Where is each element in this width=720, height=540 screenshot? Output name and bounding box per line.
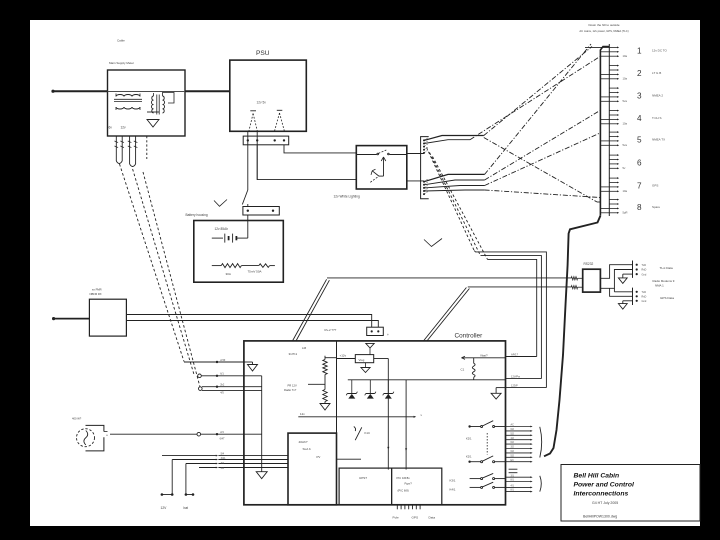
12v white lighting dimmer box <box>356 146 407 189</box>
wire radio out 2 to Rv2 <box>126 321 378 328</box>
wire fan F4 to terminal 8 <box>484 138 601 203</box>
label +12v <box>340 353 347 357</box>
label Battery housing <box>186 213 208 217</box>
svg-text:10a: 10a <box>623 122 628 126</box>
wire controller output 3/2 448.5 <box>506 446 533 450</box>
svg-text:AP/1?: AP/1? <box>511 352 519 356</box>
label terminal number 1 <box>637 46 642 55</box>
filter / main supply meter box <box>108 61 186 136</box>
battery housing box <box>194 221 283 283</box>
wire row into controller (5/4) <box>162 452 244 456</box>
svg-text:12v White Lighting: 12v White Lighting <box>334 195 360 199</box>
relay contact K4 <box>450 482 506 492</box>
wire filter to PSU <box>185 90 230 92</box>
wire controller output 4/2 439.7 <box>506 437 533 441</box>
switch K1 contact <box>354 427 370 441</box>
wire radio out 1 to Rv2 <box>126 315 371 328</box>
label bat <box>184 506 189 510</box>
terminal 3 ticks <box>600 87 619 102</box>
PIC header pins <box>397 505 420 510</box>
svg-text:Rv-2 ???: Rv-2 ??? <box>325 328 337 332</box>
svg-text:PV: PV <box>317 455 321 459</box>
svg-text:10a: 10a <box>623 77 628 81</box>
label Rv-2 <box>325 328 337 332</box>
svg-text:2/3Z: 2/3Z <box>220 359 225 362</box>
svg-text:12v 85Ah: 12v 85Ah <box>215 227 229 231</box>
label terminal number 3 <box>637 92 642 101</box>
wire rail to PIC 2 <box>405 380 407 470</box>
wire controller output 6/2 452.9 <box>506 450 533 454</box>
svg-text:Gnd: Gnd <box>642 300 647 303</box>
lower contact inside lighting box <box>370 169 379 182</box>
svg-text:40Ah?: 40Ah? <box>299 440 308 444</box>
wire controller aux output 3/1 477.2 <box>506 474 533 478</box>
PSU box U-PSU <box>230 60 306 131</box>
label terminal 3 fuse <box>623 99 628 103</box>
resistor R2 <box>323 375 327 404</box>
wire TS1 pin4 to lighting box <box>284 145 356 153</box>
label terminal number 5 <box>637 136 642 145</box>
svg-text:TLxi Data: TLxi Data <box>660 266 674 270</box>
svg-text:RxD: RxD <box>642 269 647 272</box>
svg-text:3: 3 <box>637 92 642 101</box>
svg-text:Interconnections: Interconnections <box>574 491 629 498</box>
label terminal 6 fuse <box>623 166 626 170</box>
wire 5v line with arrow <box>298 412 422 418</box>
wire fan F2 to terminal 2 <box>470 57 600 140</box>
cable bundle brace lower <box>540 476 542 492</box>
wire pair from filter (left) <box>115 136 125 164</box>
wire 12v rail horizontal <box>348 379 506 381</box>
label PSU <box>256 50 270 57</box>
wire bundle B2 <box>424 140 470 144</box>
svg-text:1: 1 <box>637 46 642 55</box>
wire dashed S2 from J1 <box>430 153 542 379</box>
svg-text:NMA 1: NMA 1 <box>655 283 664 287</box>
label terminal number 8 <box>637 203 642 212</box>
svg-text:5va: 5va <box>623 143 628 147</box>
label UPS <box>359 476 367 480</box>
wire row into controller (3/2b) <box>186 462 244 465</box>
wire wind gen to controller <box>110 432 244 436</box>
svg-text:12V/Pw: 12V/Pw <box>511 374 520 378</box>
svg-text:12v: 12v <box>121 126 127 130</box>
svg-text:123/P: 123/P <box>511 383 518 387</box>
svg-text:Pole: Pole <box>393 516 399 520</box>
label plus mark <box>387 333 389 337</box>
label terminal 2 fuse <box>623 77 628 81</box>
ground (controller top-left) <box>244 362 258 371</box>
RS232 converter box <box>583 269 601 292</box>
label terminal 4 fuse <box>623 122 628 126</box>
ground (controller left bottom) <box>256 472 267 479</box>
svg-text:RS232: RS232 <box>584 262 594 266</box>
wire controller output EC 461.7 <box>506 459 533 463</box>
ground (above Vreg) <box>366 343 374 354</box>
wire fan F5 to terminal 4 <box>485 111 600 181</box>
J1 top pins <box>423 137 429 154</box>
wire bundle B3 <box>424 174 485 181</box>
svg-text:C1: C1 <box>461 367 465 371</box>
wire fan F7 to terminal 7 <box>485 190 600 198</box>
wire fan F6 to terminal 5 <box>485 133 600 186</box>
svg-text:Power and Control: Power and Control <box>574 482 635 489</box>
connector J3 (GPS data) <box>633 288 647 305</box>
label terminal 8 name <box>652 205 660 209</box>
ground (lower connector) <box>618 301 632 309</box>
wire controller to vertical S3 <box>506 352 537 356</box>
terminal 4 ticks <box>600 110 619 125</box>
terminal 7 ticks <box>600 177 619 192</box>
svg-text:bat: bat <box>184 506 189 510</box>
wire controller to RS232 input 2 <box>468 286 583 289</box>
svg-text:BellHillPOW1300.dwg: BellHillPOW1300.dwg <box>583 515 617 519</box>
node antenna terminal <box>52 317 55 320</box>
wire controller to RS232 input 1 <box>327 277 583 280</box>
svg-text:2k2: 2k2 <box>220 384 225 387</box>
cable bundle brace upper <box>540 427 542 458</box>
wire PSU pin2 down <box>256 131 258 179</box>
title text <box>574 473 635 498</box>
svg-text:G4 HT July 2005: G4 HT July 2005 <box>592 501 618 505</box>
transformer T2 (isolation) <box>151 93 174 115</box>
svg-text:5/4: 5/4 <box>221 452 225 455</box>
svg-text:Cable: Cable <box>117 39 125 43</box>
svg-text:NMEA 2: NMEA 2 <box>652 94 663 98</box>
svg-text:2: 2 <box>637 69 642 78</box>
svg-text:+: + <box>106 434 108 438</box>
label terminal 8 fuse <box>623 211 628 215</box>
polarity mark near battery <box>214 200 227 207</box>
label terminal 7 name <box>652 184 658 188</box>
wire RS232 to modem pins <box>600 270 632 292</box>
battery B1 12v 85Ah <box>212 234 248 243</box>
svg-text:4/5: 4/5 <box>220 392 224 395</box>
svg-text:GPS: GPS <box>652 184 658 188</box>
title block <box>561 465 700 522</box>
wire fan F3 to terminal 1 <box>485 44 591 174</box>
svg-text:Data: Data <box>429 516 436 520</box>
svg-text:+12v: +12v <box>340 353 347 357</box>
relay contact inside lighting box <box>356 150 407 155</box>
svg-text:Main Supply Meter: Main Supply Meter <box>109 61 134 65</box>
svg-text:SLA b: SLA b <box>303 447 312 451</box>
bus wire to terminal strip <box>600 47 609 216</box>
label terminal 4 name <box>652 116 662 120</box>
wire D1 row to controller <box>184 359 244 363</box>
svg-text:3/2: 3/2 <box>221 462 225 465</box>
svg-text:2/4: 2/4 <box>220 431 224 434</box>
wire controller output AC 426.5 <box>506 424 533 428</box>
transformer T1 (filter choke) <box>114 94 142 111</box>
label terminal 5 fuse <box>623 143 628 147</box>
svg-text:317K1: 317K1 <box>289 352 298 356</box>
wire dashed run D2 to controller <box>133 169 194 375</box>
wire controller aux output 8/1 491.6 <box>506 489 533 493</box>
svg-text:Radio Tx?: Radio Tx? <box>284 388 297 392</box>
label 12v White Lighting <box>334 195 360 199</box>
PSU output arrow left (dashed) <box>249 111 257 131</box>
svg-text:4: 4 <box>637 114 642 123</box>
connector Rv2 <box>367 327 384 335</box>
wire TS1 pin2 to lighting box <box>257 145 356 180</box>
svg-text:6v: 6v <box>109 126 113 130</box>
SLA battery box <box>288 433 337 505</box>
svg-text:AC: AC <box>511 424 515 427</box>
label down-the-hill header <box>579 23 628 33</box>
svg-text:Vreg: Vreg <box>359 358 365 362</box>
label 30A <box>226 272 231 276</box>
wire dashed run D3 to controller <box>143 172 200 387</box>
wire TS2 into battery <box>247 215 249 238</box>
actuator arrow inside lighting box <box>379 157 386 176</box>
wire bundle B4 <box>424 180 485 185</box>
spring R (controller right) <box>461 358 476 380</box>
label Pole GPS Data <box>393 516 436 520</box>
svg-text:6/1: 6/1 <box>220 373 224 376</box>
svg-text:LM: LM <box>302 346 307 350</box>
wire lighting out top to J1 <box>407 153 424 155</box>
radio receiver box <box>89 299 126 336</box>
wire D3 rows to controller <box>199 384 244 395</box>
continuation marks <box>509 469 518 473</box>
svg-text:5va: 5va <box>623 99 628 103</box>
svg-text:Battery housing: Battery housing <box>186 213 208 217</box>
label 75mV 50A <box>248 270 262 274</box>
wire pair P2 controller to RS232 <box>424 288 470 341</box>
svg-text:6/4T: 6/4T <box>220 437 225 440</box>
svg-text:5pR: 5pR <box>623 211 628 215</box>
wire pair P1 controller to RS232 <box>293 279 330 341</box>
svg-text:Pgm?: Pgm? <box>405 481 413 485</box>
svg-text:GPS Data: GPS Data <box>660 296 674 300</box>
label PR-12V Radio Tx <box>284 383 325 392</box>
label TLxi Data <box>660 266 674 270</box>
label terminal 1 name <box>652 48 668 52</box>
wire AC mains to filter <box>53 90 108 92</box>
zener D1 <box>346 380 357 399</box>
svg-text:EC: EC <box>511 459 515 462</box>
regulator U2 Vreg <box>337 355 389 363</box>
label terminal number 2 <box>637 69 642 78</box>
relay contact K2a <box>468 421 505 428</box>
wire controller to vertical S1 <box>506 383 547 387</box>
svg-text:(PIC 6/8): (PIC 6/8) <box>398 488 409 492</box>
label Controller <box>455 332 484 339</box>
label 12v <box>121 126 127 130</box>
label terminal 5 name <box>652 138 665 142</box>
svg-text:K1C: K1C <box>365 431 371 435</box>
controller left collector wire <box>244 376 262 472</box>
svg-text:12v 5v: 12v 5v <box>257 101 267 105</box>
wire controller aux output 4/1 487.4 <box>506 485 533 489</box>
label 40Ah SLA <box>299 440 312 451</box>
svg-text:PIC 16F8x: PIC 16F8x <box>397 476 411 480</box>
UPS box <box>339 468 392 505</box>
svg-text:Bell Hill Cabin: Bell Hill Cabin <box>574 473 620 480</box>
J1 bottom pins <box>423 179 429 195</box>
wire bundle B6 <box>424 190 485 191</box>
title filename <box>583 515 617 519</box>
label GPS Data <box>660 296 674 300</box>
wire PSU pin1 down <box>247 131 249 190</box>
K2 link <box>466 433 487 459</box>
label 6v <box>109 126 113 130</box>
wire Vreg to PIC rail <box>387 359 389 470</box>
label Cable <box>117 39 125 43</box>
svg-text:RxD: RxD <box>642 296 647 299</box>
label terminal number 4 <box>637 114 642 123</box>
terminal 8 ticks <box>600 199 619 214</box>
terminal strip TS2 <box>243 207 279 216</box>
svg-text:Down the hill to outside: Down the hill to outside <box>588 23 619 27</box>
terminal 1 ticks <box>600 46 619 57</box>
connector J2 (TLxi data) <box>633 261 647 278</box>
wire lighting out bottom to J1 <box>407 180 424 182</box>
bat sense riser <box>185 464 195 496</box>
main cable down the hill (thick) <box>544 216 600 457</box>
svg-text:PR 12V: PR 12V <box>288 383 297 387</box>
node AC supply input terminal <box>51 90 54 93</box>
svg-text:TxD: TxD <box>642 291 647 294</box>
svg-text:12v DC TO: 12v DC TO <box>652 48 668 52</box>
svg-text:7: 7 <box>637 182 642 191</box>
terminal strip spine <box>608 44 610 216</box>
12V sense riser <box>161 460 174 496</box>
svg-text:10a: 10a <box>623 189 628 193</box>
label terminal 1 fuse <box>623 54 628 58</box>
svg-text:K2/1: K2/1 <box>466 455 472 459</box>
wire D2 row to controller <box>198 373 244 378</box>
terminal 2 ticks <box>600 65 619 80</box>
terminal 6 ticks <box>609 154 619 169</box>
svg-text:Vbat?: Vbat? <box>480 354 488 358</box>
svg-text:400 W?: 400 W? <box>72 417 82 421</box>
svg-text:GPS: GPS <box>412 516 419 520</box>
label PIC 16F8 <box>397 476 413 492</box>
relay contact K3 <box>450 473 506 482</box>
label terminal number 6 <box>637 159 642 168</box>
fuse F1 30A <box>212 264 259 268</box>
svg-text:5: 5 <box>637 136 642 145</box>
wire Vbat with arrow <box>462 354 506 360</box>
wire controller output 6/2 430.9 <box>506 428 533 432</box>
wire pair from filter (right) <box>128 136 138 167</box>
svg-text:3/21: 3/21 <box>221 457 226 460</box>
svg-text:6: 6 <box>637 159 642 168</box>
svg-text:PSU: PSU <box>256 50 270 57</box>
svg-text:3/6: 3/6 <box>221 467 225 470</box>
label wind generator <box>72 417 82 421</box>
polarity mark mid page <box>424 239 442 247</box>
ground (filter) <box>147 112 159 127</box>
wire through filter <box>108 91 186 93</box>
svg-text:+: + <box>387 333 389 337</box>
wire dashed S3 from J1 <box>433 157 537 357</box>
ground (upper connector) <box>618 274 632 283</box>
wire dashed S1 from J1 <box>427 148 547 388</box>
title date <box>592 501 618 505</box>
svg-text:75mV 50A: 75mV 50A <box>248 270 262 274</box>
label terminal 2 name <box>652 71 661 75</box>
svg-text:Gnd: Gnd <box>642 273 647 276</box>
svg-text:12v: 12v <box>300 412 305 416</box>
label radio modems <box>653 279 675 287</box>
resistor R1 <box>323 356 337 375</box>
wire fan F1 to terminal 1 <box>484 47 610 136</box>
svg-text:8: 8 <box>637 203 642 212</box>
wire controller aux output 8/1 481.5 <box>506 479 533 483</box>
svg-text:10a: 10a <box>623 54 628 58</box>
label terminal number 7 <box>637 182 642 191</box>
svg-text:30A: 30A <box>226 272 231 276</box>
svg-text:ex PMR: ex PMR <box>92 287 102 291</box>
label PV + wire <box>317 455 362 459</box>
wire row into controller (3/2) <box>172 457 244 460</box>
svg-text:T.CH S: T.CH S <box>652 116 662 120</box>
wire controller output 5/2 457.3 <box>506 454 533 458</box>
svg-text:TxD: TxD <box>642 264 647 267</box>
svg-text:K2/1: K2/1 <box>466 437 472 441</box>
PIC box <box>392 468 442 505</box>
svg-text:UPS?: UPS? <box>359 476 367 480</box>
label 12v inside PSU <box>257 101 267 105</box>
wire row into controller (3/6) <box>199 467 244 470</box>
wind generator G1 <box>77 425 109 451</box>
switch S1 battery isolator <box>242 190 248 207</box>
wire controller to vertical S2 <box>506 374 542 378</box>
label terminal 3 name <box>652 94 663 98</box>
wire RS232 to TNC connector <box>600 265 632 279</box>
wire bundle B5 <box>424 186 485 188</box>
controller internal divider <box>336 341 338 505</box>
terminal strip TS1 under PSU <box>243 136 289 145</box>
label RS232 <box>584 262 594 266</box>
shunt R-shunt 75mV <box>259 264 275 268</box>
wire stub dashed below filter <box>146 136 148 159</box>
wire dashed run D1 to controller <box>120 164 185 362</box>
label 12v 85Ah <box>215 227 229 231</box>
wire bundle B1 <box>424 136 484 141</box>
label 12V <box>161 506 168 510</box>
wire controller output 6/2 444.1 <box>506 441 533 445</box>
relay contact K2b <box>468 456 505 463</box>
svg-text:LT G B: LT G B <box>652 71 661 75</box>
controller box <box>244 341 506 505</box>
label ex-PMR NBFM RX <box>90 287 102 296</box>
wire antenna to radio <box>54 318 90 320</box>
PSU output arrow right (dashed) <box>275 110 285 131</box>
ground (R2) <box>320 404 330 411</box>
wire controller output 5/2 435.3 <box>506 432 533 436</box>
wire GPS pin2 <box>610 288 633 296</box>
ground (below Vreg) <box>361 363 370 373</box>
terminal 5 ticks <box>600 131 619 146</box>
zener D3 <box>383 380 394 399</box>
label terminal 7 fuse <box>623 189 628 193</box>
label wire 2/4 6/4T <box>220 431 225 440</box>
svg-text:AC mains, 12v power, GPS, NMEA: AC mains, 12v power, GPS, NMEA (TLC) <box>579 29 628 33</box>
svg-text:NMEA TX: NMEA TX <box>652 138 665 142</box>
connector J1 bracket <box>421 137 429 199</box>
svg-text:K3/1: K3/1 <box>450 479 456 483</box>
svg-text:Controller: Controller <box>455 332 484 339</box>
label LM 317K1 <box>289 346 307 356</box>
ground (controller right) <box>491 388 505 400</box>
svg-text:NBFM RX: NBFM RX <box>90 292 102 296</box>
svg-text:12V: 12V <box>161 506 168 510</box>
zener D2 <box>365 380 376 399</box>
